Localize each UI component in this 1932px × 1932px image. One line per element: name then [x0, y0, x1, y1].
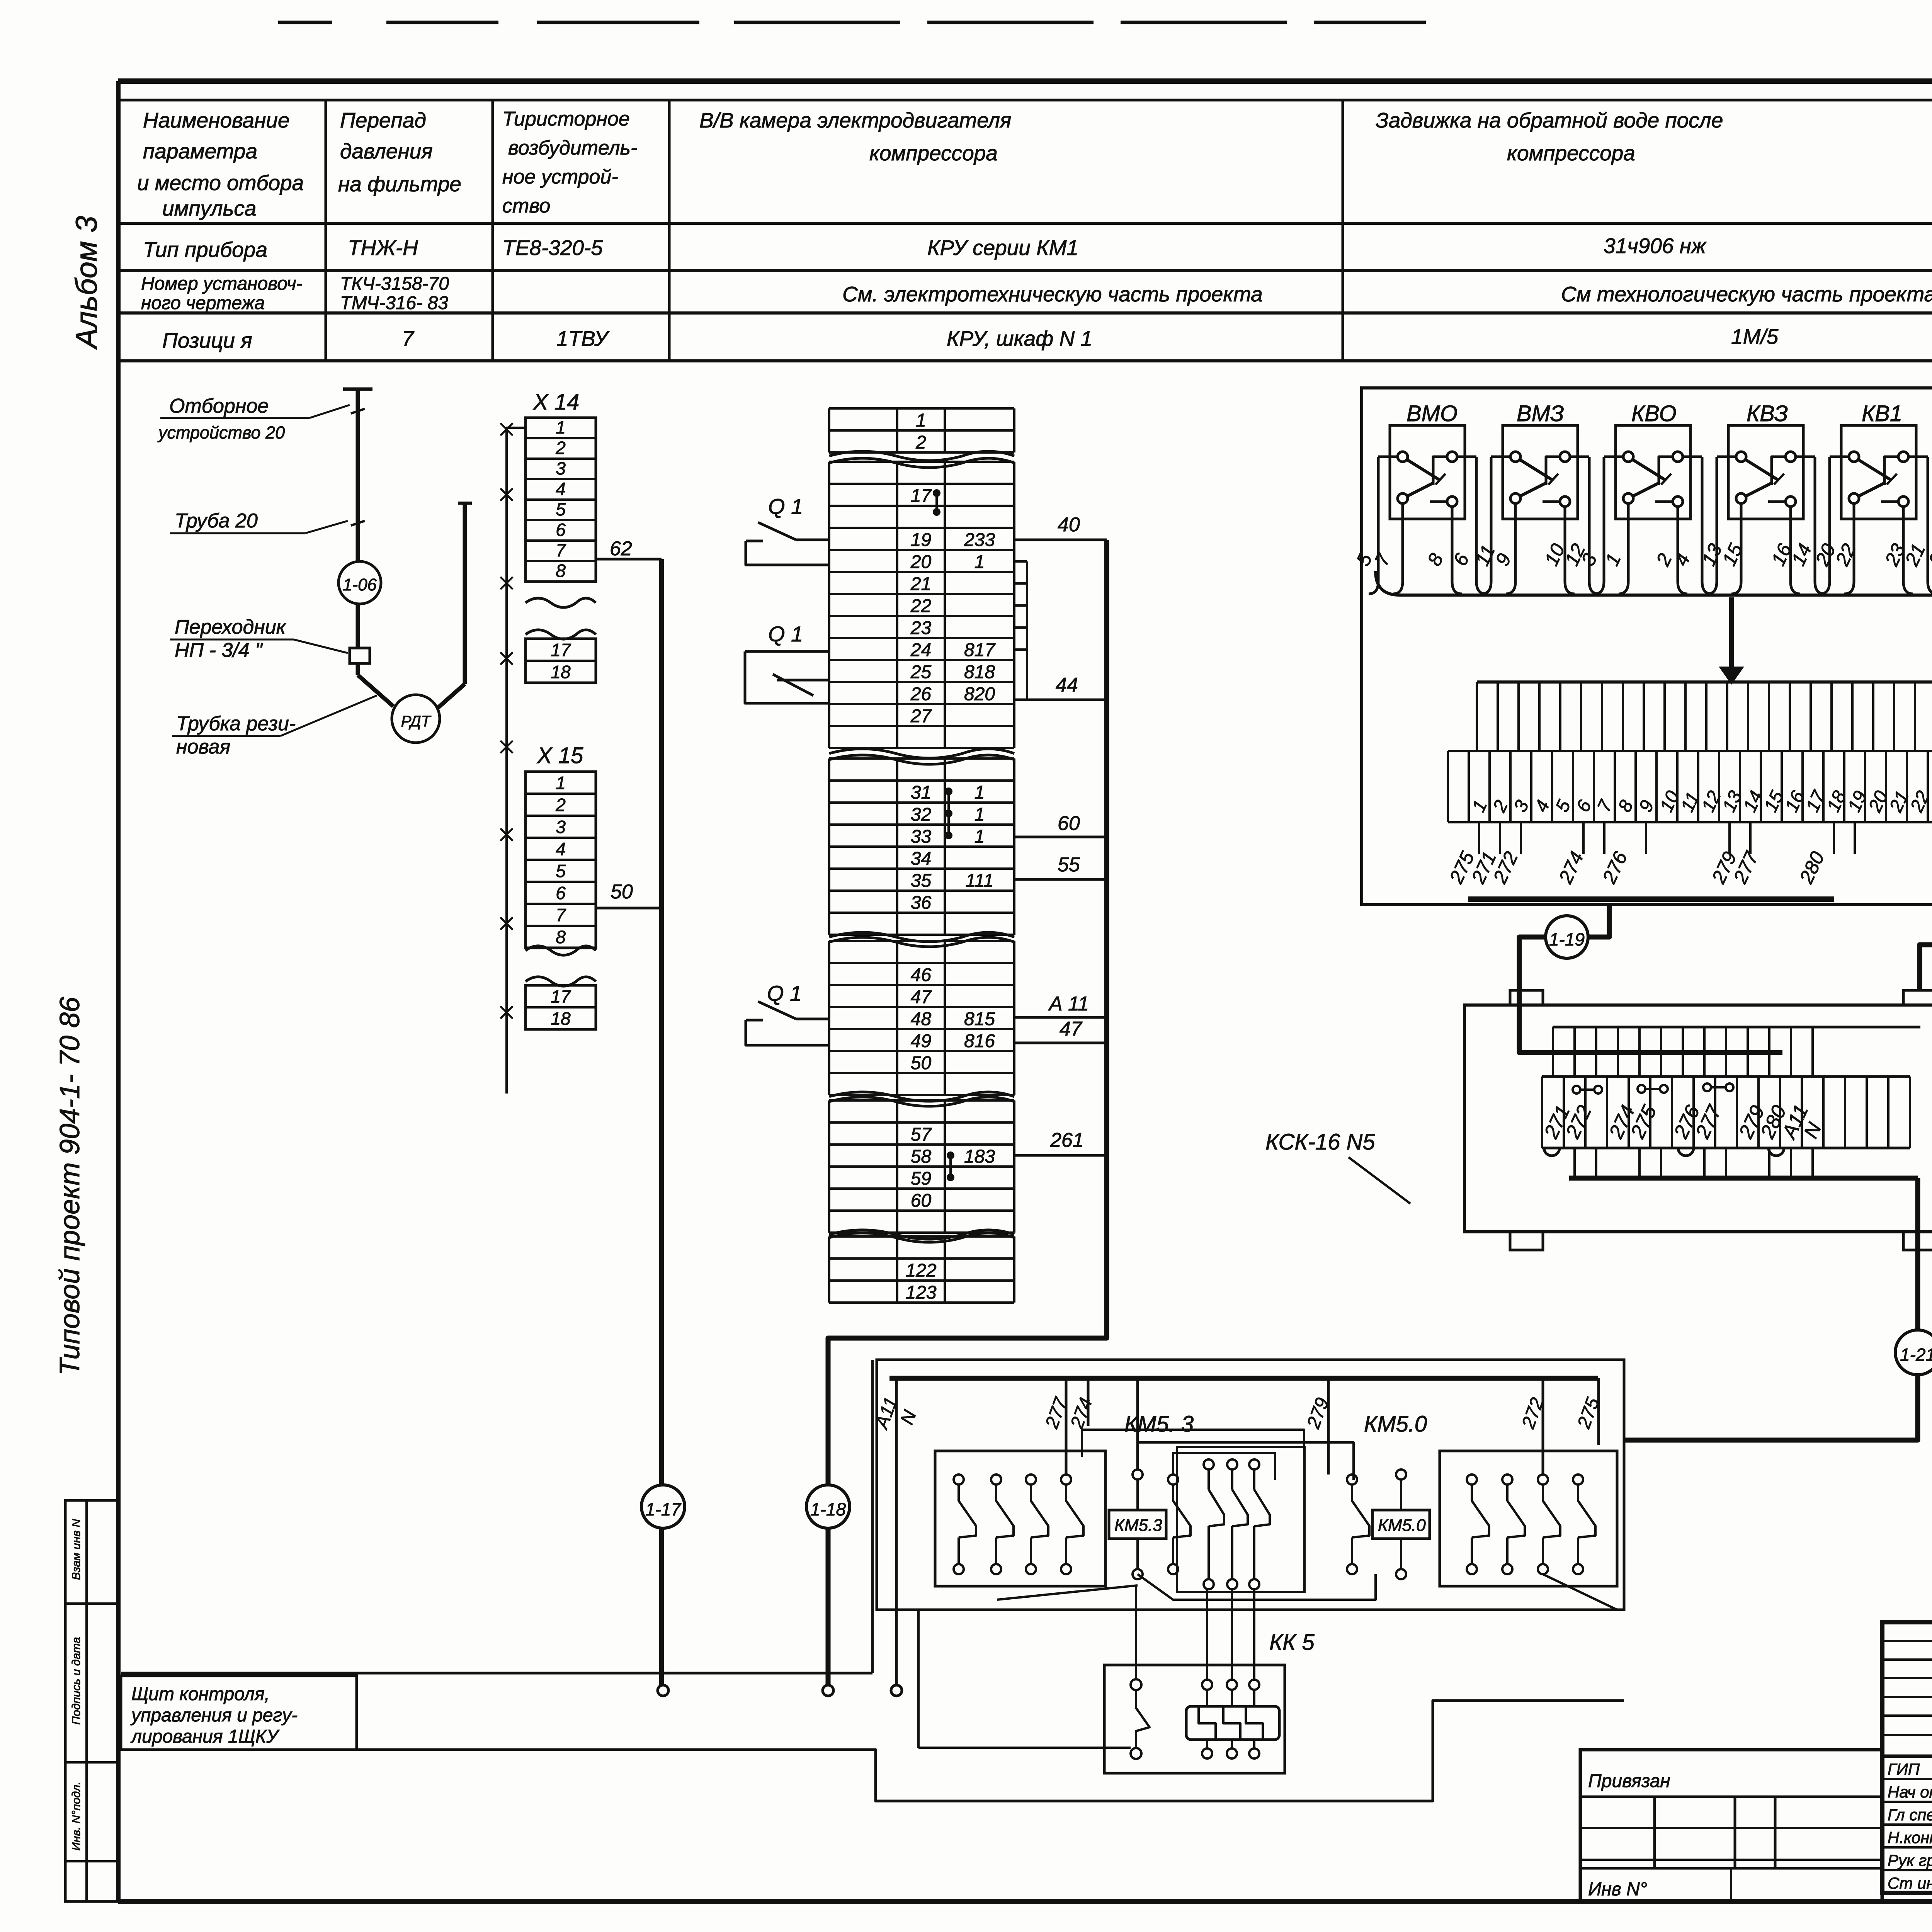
- svg-text:новая: новая: [176, 736, 230, 758]
- svg-text:КСК-16 N5: КСК-16 N5: [1265, 1129, 1375, 1155]
- svg-text:3: 3: [556, 458, 566, 478]
- svg-text:49: 49: [911, 1031, 931, 1051]
- svg-text:и место отбора: и место отбора: [137, 171, 304, 195]
- svg-text:233: 233: [964, 530, 995, 550]
- svg-text:ТЕ8-320-5: ТЕ8-320-5: [502, 236, 603, 260]
- paper edge dash marks top: [278, 21, 332, 24]
- svg-text:815: 815: [964, 1009, 995, 1029]
- svg-text:50: 50: [611, 881, 633, 903]
- risers below terminal strip: [1478, 822, 1480, 854]
- svg-text:3: 3: [556, 817, 566, 837]
- svg-text:5: 5: [556, 861, 566, 881]
- KM cabinet top bus: [889, 1376, 1598, 1381]
- wires from ВМО to cable: [1378, 456, 1398, 458]
- svg-text:24: 24: [910, 640, 931, 660]
- svg-text:КВ1: КВ1: [1862, 401, 1902, 426]
- KRU terminal strip numbered row 1-27: [1448, 821, 1932, 823]
- KM5.0 aux contact: [1347, 1475, 1357, 1485]
- svg-text:устройство 20: устройство 20: [157, 423, 285, 442]
- panel boundary line lower: [357, 1701, 1624, 1801]
- panel boundary line: [121, 1672, 872, 1675]
- rubber tube to РДТ: [358, 675, 393, 706]
- KM cabinet outline: [877, 1360, 1624, 1610]
- svg-text:Подпись и дата: Подпись и дата: [70, 1637, 83, 1725]
- cable exit down from KRU box: [1589, 905, 1609, 937]
- svg-text:7: 7: [556, 540, 566, 560]
- tube from РДТ to pipe: [438, 684, 465, 708]
- svg-text:X 14: X 14: [532, 389, 579, 415]
- svg-text:Позици я: Позици я: [162, 328, 252, 352]
- terminal strip X15 cells 17-18: [526, 985, 596, 1029]
- svg-text:5: 5: [556, 499, 566, 519]
- attachment table: [1580, 1750, 1882, 1901]
- svg-text:на фильтре: на фильтре: [338, 172, 461, 196]
- svg-text:См технологическую часть: См технологическую часть проекта: [1561, 282, 1932, 306]
- KCK jumpers: [1573, 1086, 1580, 1094]
- svg-text:КРУ серии КМ1: КРУ серии КМ1: [927, 236, 1078, 260]
- svg-text:31: 31: [911, 782, 931, 803]
- jumper dots cells 58-59: [947, 1151, 954, 1159]
- sheet frame border: [118, 78, 1932, 84]
- wire 277: [1065, 1378, 1068, 1475]
- svg-text:4: 4: [556, 479, 566, 499]
- svg-text:Q 1: Q 1: [768, 494, 803, 519]
- svg-text:22: 22: [910, 596, 931, 616]
- svg-text:183: 183: [964, 1146, 995, 1167]
- KCK risers top: [1552, 1027, 1554, 1077]
- svg-text:1: 1: [916, 410, 926, 431]
- svg-text:ТКЧ-3158-70: ТКЧ-3158-70: [340, 274, 449, 294]
- wires from KM5.3 power contacts down to KK5: [1135, 1585, 1137, 1679]
- cable 1-19 to KCK box: [1519, 937, 1782, 1053]
- svg-text:7: 7: [402, 327, 415, 350]
- wire A11 riser to KM box: [871, 1360, 874, 1673]
- pipe up right: [463, 503, 467, 684]
- ВМО contact blade: [1407, 460, 1440, 480]
- svg-text:Переходник: Переходник: [175, 616, 287, 638]
- svg-text:компрессора: компрессора: [1507, 141, 1635, 165]
- svg-text:55: 55: [1058, 854, 1080, 876]
- svg-text:КРУ, шкаф N 1: КРУ, шкаф N 1: [947, 327, 1092, 350]
- cable marker 1-06: [338, 561, 381, 604]
- svg-text:57: 57: [911, 1124, 932, 1145]
- svg-text:компрессора: компрессора: [869, 141, 998, 165]
- central strip block 1-2: [828, 408, 830, 452]
- svg-text:Инв. N°подл.: Инв. N°подл.: [70, 1782, 83, 1851]
- contact group right: [1440, 1451, 1617, 1586]
- svg-text:импульса: импульса: [162, 196, 256, 220]
- svg-text:Рук гр.: Рук гр.: [1888, 1851, 1932, 1869]
- jumper dots cell 17: [933, 489, 940, 497]
- adapter НП-3/4: [350, 648, 370, 663]
- wire 279: [1327, 1378, 1330, 1475]
- terminal end circle N: [891, 1685, 902, 1696]
- terminal strip X15 cells 1-8: [526, 772, 596, 948]
- svg-text:управления и регу-: управления и регу-: [130, 1705, 298, 1726]
- svg-text:47: 47: [911, 987, 932, 1007]
- svg-text:КМ5.3: КМ5.3: [1114, 1516, 1162, 1535]
- wires from КВЗ to cable: [1717, 456, 1736, 458]
- svg-text:Отборное: Отборное: [169, 395, 269, 417]
- multicore cable line with conductor marks: [507, 428, 526, 1094]
- svg-text:44: 44: [1056, 674, 1078, 696]
- wires from КВ1 to cable: [1830, 456, 1849, 458]
- svg-text:48: 48: [911, 1009, 932, 1029]
- svg-text:Ст инж: Ст инж: [1888, 1874, 1932, 1892]
- svg-text:18: 18: [551, 662, 571, 682]
- svg-text:820: 820: [964, 684, 995, 704]
- svg-text:В/В камера электродвигателя: В/В камера электродвигателя: [699, 108, 1011, 132]
- svg-text:См. электротехническую часть: См. электротехническую часть проекта: [842, 282, 1263, 306]
- KM5.3 power contacts to KK5: [1204, 1459, 1214, 1469]
- svg-text:32: 32: [911, 804, 931, 825]
- svg-text:Наименование: Наименование: [143, 108, 290, 132]
- svg-text:Труба 20: Труба 20: [175, 510, 258, 532]
- signature rows: [1882, 1778, 1932, 1780]
- svg-text:Инв N°: Инв N°: [1588, 1879, 1647, 1900]
- KCK top rail: [1553, 1026, 1920, 1029]
- svg-text:40: 40: [1058, 514, 1080, 536]
- cable bus from strip down to panel: [828, 540, 1107, 1685]
- wires from ВМЗ to cable: [1491, 456, 1510, 458]
- central strip block 31-36: [828, 759, 830, 935]
- svg-text:возбудитель-: возбудитель-: [508, 137, 637, 159]
- svg-text:Задвижка на обратной воде: Задвижка на обратной воде после: [1376, 108, 1723, 132]
- KCK bottom bus: [1569, 1176, 1866, 1181]
- КВ1 contact blade: [1859, 460, 1891, 480]
- bottom cable bus in KRU box: [1468, 896, 1834, 902]
- svg-text:60: 60: [911, 1190, 932, 1211]
- svg-text:35: 35: [911, 871, 932, 891]
- svg-text:КВЗ: КВЗ: [1747, 401, 1788, 426]
- svg-text:2: 2: [915, 432, 926, 453]
- jumper dots cells 31-33: [945, 787, 952, 795]
- drop wire from cable to terminal strip: [1729, 597, 1734, 678]
- svg-text:817: 817: [964, 640, 996, 660]
- KM5.3 aux contact: [1168, 1475, 1178, 1485]
- label box Щит контроля управления и регулирования 1ЩКУ: [121, 1676, 357, 1750]
- svg-text:123: 123: [905, 1282, 936, 1303]
- wire 47: [1014, 1042, 1107, 1044]
- svg-text:21: 21: [910, 574, 931, 594]
- svg-text:4: 4: [556, 839, 566, 859]
- svg-text:КК 5: КК 5: [1269, 1630, 1315, 1655]
- wire N in KM cabinet: [895, 1378, 898, 1685]
- wire 55: [1014, 878, 1107, 881]
- central strip block 46-50: [828, 941, 830, 1095]
- svg-text:23: 23: [910, 618, 932, 638]
- svg-text:1-06: 1-06: [343, 575, 377, 594]
- svg-text:2: 2: [555, 438, 566, 458]
- wire from 272 contact to box corner: [1543, 1574, 1617, 1610]
- svg-text:1: 1: [975, 782, 985, 803]
- svg-text:давления: давления: [340, 139, 433, 163]
- pressure device РДТ: [392, 695, 440, 743]
- svg-text:Привязан: Привязан: [1588, 1771, 1670, 1791]
- svg-text:27: 27: [910, 706, 932, 726]
- svg-text:19: 19: [911, 530, 931, 550]
- svg-text:111: 111: [966, 871, 994, 891]
- KK5 heater elements: [1186, 1706, 1279, 1740]
- svg-text:62: 62: [610, 537, 632, 560]
- wire 50: [596, 907, 662, 910]
- KCK risers bottom: [1573, 1148, 1576, 1178]
- svg-text:1: 1: [556, 417, 566, 437]
- svg-text:РДТ: РДТ: [401, 713, 432, 730]
- svg-text:КМ5.0: КМ5.0: [1364, 1412, 1427, 1437]
- svg-text:59: 59: [911, 1168, 931, 1189]
- wire from panel to KK5: [918, 1747, 1131, 1749]
- impulse pipe: [356, 389, 360, 564]
- svg-text:17: 17: [551, 986, 571, 1007]
- svg-text:Q 1: Q 1: [768, 622, 803, 646]
- svg-text:КМ5. 3: КМ5. 3: [1124, 1412, 1194, 1437]
- svg-text:Взам инв N: Взам инв N: [70, 1519, 83, 1580]
- svg-text:лирования 1ЩКУ: лирования 1ЩКУ: [130, 1726, 280, 1747]
- svg-text:2: 2: [555, 795, 566, 815]
- svg-text:ТНЖ-Н: ТНЖ-Н: [348, 236, 418, 260]
- svg-text:X 15: X 15: [536, 743, 583, 768]
- title block revision rows: [1882, 1640, 1932, 1642]
- svg-text:ГИП: ГИП: [1888, 1760, 1920, 1778]
- wire 272: [1542, 1378, 1544, 1475]
- svg-text:ство: ство: [502, 195, 550, 217]
- svg-text:261: 261: [1050, 1129, 1084, 1151]
- svg-text:параметра: параметра: [143, 139, 257, 163]
- cable 62 down to panel: [659, 559, 664, 1685]
- svg-text:КВО: КВО: [1631, 401, 1677, 426]
- KK5 box: [1104, 1665, 1285, 1773]
- svg-text:ТМЧ-316- 83: ТМЧ-316- 83: [340, 293, 448, 313]
- wires from КВО to cable: [1604, 456, 1623, 458]
- KM5.3 interconnect wires: [1082, 1430, 1304, 1457]
- terminal wire end circle 1-18: [823, 1685, 833, 1696]
- svg-text:Номер установоч-: Номер установоч-: [141, 274, 303, 294]
- cable marker 1-18: [806, 1485, 850, 1528]
- svg-text:8: 8: [556, 561, 566, 581]
- KCK-16 N5 enclosure: [1464, 1005, 1932, 1232]
- svg-text:ВМЗ: ВМЗ: [1517, 401, 1564, 426]
- ВМЗ contact blade: [1520, 460, 1553, 480]
- central strip block 57-60: [828, 1100, 830, 1233]
- terminal X14 wire end circle: [658, 1685, 668, 1696]
- terminal strip X14 cells 1-8: [526, 418, 596, 582]
- svg-text:17: 17: [551, 640, 571, 660]
- svg-text:Трубка рези-: Трубка рези-: [176, 713, 296, 735]
- contact group left: [935, 1451, 1105, 1586]
- svg-text:Нач отд: Нач отд: [1888, 1783, 1932, 1801]
- cable 1-21 to KM box: [1624, 1375, 1918, 1440]
- svg-text:1: 1: [975, 827, 985, 847]
- KCK bottom hooks: [1544, 1148, 1560, 1156]
- svg-text:47: 47: [1060, 1018, 1083, 1040]
- central strip block 17-27: [828, 462, 830, 748]
- wire 275: [1597, 1378, 1600, 1445]
- svg-text:17: 17: [911, 486, 932, 506]
- collector cells 20-24: [1026, 561, 1028, 700]
- KM5.3 section outline: [1138, 1442, 1354, 1480]
- svg-text:Гл спец: Гл спец: [1888, 1806, 1932, 1824]
- svg-text:50: 50: [911, 1053, 932, 1073]
- svg-text:122: 122: [905, 1260, 936, 1281]
- svg-text:ВМО: ВМО: [1406, 401, 1458, 426]
- svg-text:1: 1: [975, 804, 985, 825]
- svg-text:1М/5: 1М/5: [1731, 325, 1779, 349]
- svg-text:34: 34: [911, 849, 931, 869]
- terminal strip X14 cells 17-18: [526, 639, 596, 683]
- svg-text:26: 26: [910, 684, 932, 704]
- wire 62: [596, 558, 662, 561]
- svg-text:Тиристорное: Тиристорное: [502, 108, 630, 130]
- svg-text:А 11: А 11: [1048, 993, 1089, 1015]
- contactor KM5.3 coil: [1133, 1469, 1143, 1480]
- stamp boxes left bottom: [65, 1500, 118, 1901]
- svg-text:Типовой проект 904-1- 70 86: Типовой проект 904-1- 70 86: [54, 997, 85, 1376]
- svg-text:Q 1: Q 1: [767, 981, 802, 1005]
- cable marker 1-19: [1546, 916, 1588, 958]
- svg-text:1: 1: [975, 552, 985, 572]
- svg-text:31ч906 нж: 31ч906 нж: [1604, 234, 1707, 258]
- header table grid: [118, 99, 1932, 102]
- svg-text:36: 36: [911, 893, 932, 913]
- svg-text:1-19: 1-19: [1549, 929, 1585, 949]
- svg-text:НП - 3/4 ": НП - 3/4 ": [175, 639, 263, 662]
- svg-text:25: 25: [910, 662, 932, 682]
- KRU cubicle box outline: [1362, 388, 1932, 905]
- svg-text:20: 20: [910, 552, 932, 572]
- wire 261: [1014, 1154, 1107, 1157]
- svg-text:60: 60: [1058, 812, 1080, 835]
- svg-text:ного чертежа: ного чертежа: [141, 293, 265, 313]
- svg-text:7: 7: [556, 905, 566, 925]
- svg-text:КМ5.0: КМ5.0: [1378, 1516, 1426, 1535]
- svg-text:Щит контроля,: Щит контроля,: [131, 1684, 270, 1704]
- svg-text:Н.контр: Н.контр: [1888, 1828, 1932, 1847]
- svg-text:818: 818: [964, 662, 995, 682]
- svg-text:58: 58: [911, 1146, 932, 1167]
- КВЗ contact blade: [1746, 460, 1779, 480]
- svg-text:18: 18: [551, 1009, 571, 1029]
- KCK terminal strip: [1542, 1075, 1910, 1078]
- svg-text:1-17: 1-17: [645, 1499, 681, 1519]
- KRU terminal strip upper row: [1476, 682, 1478, 751]
- wire 40: [1014, 539, 1107, 541]
- wire 274: [1087, 1378, 1090, 1426]
- wire A11: [1014, 1016, 1107, 1019]
- svg-text:816: 816: [964, 1031, 995, 1051]
- KK5 NC contact: [1131, 1679, 1141, 1690]
- svg-text:8: 8: [556, 927, 566, 947]
- title block outline: [1882, 1622, 1932, 1893]
- svg-text:ное устрой-: ное устрой-: [502, 166, 618, 188]
- svg-text:Перепад: Перепад: [340, 108, 426, 132]
- central strip block 122-123: [828, 1236, 830, 1303]
- svg-text:Тип прибора: Тип прибора: [143, 238, 267, 262]
- svg-text:1-21: 1-21: [1900, 1345, 1932, 1365]
- contactor KM5.0 coil: [1396, 1469, 1406, 1480]
- cable harness line in KRU box: [1376, 571, 1932, 595]
- cable marker 1-17: [641, 1485, 685, 1528]
- КВО contact blade: [1633, 460, 1666, 480]
- svg-text:33: 33: [911, 827, 932, 847]
- svg-text:6: 6: [556, 883, 566, 903]
- KM cabinet inner bottom wires: [1138, 1574, 1376, 1600]
- wire 60: [1014, 836, 1107, 838]
- wire 44: [1014, 699, 1107, 701]
- svg-text:46: 46: [911, 965, 932, 985]
- cable 1-20 path: [1920, 945, 1932, 1146]
- cable 1-21 exit: [1866, 1176, 1918, 1181]
- svg-text:1-18: 1-18: [810, 1499, 846, 1519]
- svg-text:6: 6: [556, 520, 566, 540]
- svg-text:1: 1: [556, 773, 566, 793]
- svg-text:1ТВУ: 1ТВУ: [556, 327, 610, 350]
- cable marker 1-21: [1895, 1330, 1932, 1375]
- svg-text:Альбом 3: Альбом 3: [69, 216, 103, 350]
